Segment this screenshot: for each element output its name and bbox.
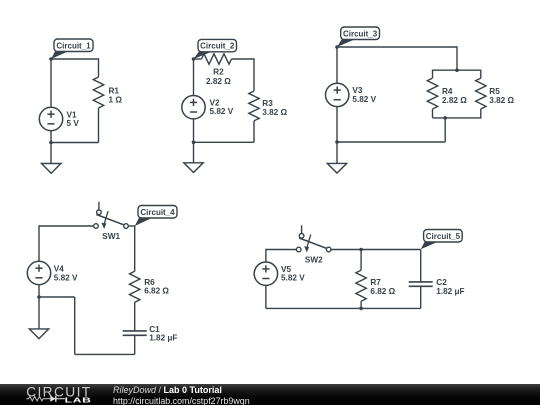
wire R6 top lead [134,226,136,271]
ground Circuit_2 [184,163,203,173]
svg-text:R4: R4 [442,87,453,96]
resistor R5 [476,78,486,109]
svg-text:6.82 Ω: 6.82 Ω [370,287,395,296]
ground Circuit_1 [42,164,61,174]
svg-text:5.82 V: 5.82 V [210,107,234,116]
wire right upper Circuit_1 [98,58,100,77]
voltage source V5 [254,262,277,285]
wire to ground Circuit_2 [193,142,195,163]
wire V5 bottom lead [265,285,267,308]
node parallel bottom junction [443,116,447,120]
node Circuit_1 bottom junction [49,141,53,145]
svg-text:R6: R6 [144,278,155,287]
svg-text:6.82 Ω: 6.82 Ω [144,287,169,296]
wire R2 left lead [194,58,202,60]
CircuitLab logo resistor squiggle and diode [26,396,65,402]
wire C1 bottom lead [134,335,136,354]
svg-text:R3: R3 [262,99,273,108]
node label Circuit_4 [135,206,177,227]
svg-text:Circuit_2: Circuit_2 [200,42,235,51]
wire bottom Circuit_4 [75,353,135,355]
capacitor C1 [123,331,147,335]
node N1 (Circuit_1 top-left) [49,57,53,61]
node Circuit_4 top-right corner [134,225,136,226]
svg-text:V3: V3 [352,86,362,95]
resistor R3 [249,91,259,121]
svg-text:C2: C2 [436,278,447,287]
wire R7 top lead [360,250,362,271]
svg-text:5.82 V: 5.82 V [352,95,376,104]
wire bottom Circuit_3 [337,141,445,143]
svg-text:R2: R2 [213,68,224,77]
wire V3 top lead [336,47,338,83]
node Circuit_4 junction [37,295,41,299]
wire C2 top lead [420,250,422,282]
label V4 value [54,265,78,283]
wire right lower Circuit_2 [253,121,255,143]
wire R2 right lead [232,58,255,60]
wire SW2 right [331,249,421,251]
capacitor C2 [409,282,433,286]
svg-text:Circuit_4: Circuit_4 [140,208,175,217]
resistor R7 [356,270,366,301]
label V2 value [210,98,234,116]
wire right upper Circuit_2 [253,58,255,91]
voltage source V1 [39,107,62,130]
wire V4 bottom lead [38,285,40,297]
svg-text:V5: V5 [281,265,291,274]
node N3 (Circuit_3 top-left) [335,45,339,49]
svg-text:5.82 V: 5.82 V [281,274,305,283]
wire R5 top lead [480,70,482,79]
node R7 top junction [359,248,363,252]
svg-text:2.82 Ω: 2.82 Ω [442,96,467,105]
wire parallel top rail [433,69,481,71]
svg-text:R7: R7 [370,278,381,287]
switch SW1 [94,202,129,229]
svg-text:Circuit_3: Circuit_3 [343,29,378,38]
resistor R6 [130,271,140,302]
CircuitLab logo wordmark CIRCUIT [26,384,91,399]
label C1 value [149,325,177,343]
svg-text:3.82 Ω: 3.82 Ω [489,96,514,105]
CircuitLab logo wordmark LAB [65,396,92,404]
svg-text:Circuit_1: Circuit_1 [56,41,91,50]
label R2 value [206,68,231,86]
node label Circuit_1 [51,39,93,59]
svg-text:V1: V1 [67,110,77,119]
wire R4 bottom lead [432,109,434,118]
wire V1 bottom lead [50,131,52,143]
wire down to parallel pair [456,46,458,70]
wire V4 top lead [38,225,40,261]
wire R7 bottom lead [360,301,362,308]
resistor R4 [427,78,437,109]
svg-text:1.82 μF: 1.82 μF [436,287,464,296]
wire R4 top lead [432,70,434,79]
svg-text:SW2: SW2 [305,256,323,265]
node R7 bottom junction [359,307,363,311]
wire V1 top lead [50,59,52,107]
wire to ground Circuit_4 [38,297,40,329]
wire bottom horizontal stub [39,296,75,298]
wire down from parallel pair [444,118,446,142]
label SW2 [305,256,323,265]
wire R5 bottom lead [480,109,482,119]
label V5 value [281,265,305,283]
wire right lower Circuit_1 [98,108,100,143]
wire bottom Circuit_1 [51,142,99,144]
wire SW1 right [128,225,134,227]
wire bottom Circuit_5 [266,307,421,309]
svg-text:R5: R5 [489,87,500,96]
wire top Circuit_1 [51,58,99,60]
wire to ground Circuit_3 [336,142,338,163]
svg-text:R1: R1 [109,87,120,96]
wire V3 bottom lead [336,107,338,142]
node Circuit_2 bottom junction [192,141,196,145]
label R4 value [442,87,467,105]
svg-text:1.82 μF: 1.82 μF [149,334,177,343]
resistor R1 [93,77,103,108]
svg-text:V2: V2 [210,98,220,107]
wire top Circuit_3 [337,46,457,48]
label C2 value [436,278,464,296]
ground Circuit_3 [327,163,346,173]
resistor R2 [202,54,232,64]
wire C2 bottom lead [420,286,422,308]
wire R6 bottom / C1 top lead [134,302,136,331]
wire V2 bottom lead [193,119,195,142]
wire SW1 left [39,225,94,227]
svg-text:1 Ω: 1 Ω [109,95,123,104]
wire V5 top lead [265,249,267,262]
svg-text:3.82 Ω: 3.82 Ω [262,108,287,117]
label R1 value [109,87,123,105]
node N2 (Circuit_2 top-left) [192,57,196,61]
node label Circuit_5 [421,230,463,250]
node parallel top junction [455,68,459,72]
label V1 value [67,110,80,128]
ground Circuit_4 [29,329,48,339]
svg-text:V4: V4 [54,265,64,274]
svg-text:2.82 Ω: 2.82 Ω [206,77,231,86]
svg-text:SW1: SW1 [102,232,120,241]
switch SW2 [296,225,331,252]
node Circuit_3 bottom junction [335,140,339,144]
node label Circuit_3 [337,27,380,47]
label R7 value [370,278,395,296]
node label Circuit_2 [194,39,237,59]
wire SW2 left [266,249,297,251]
wire bottom Circuit_2 [194,141,255,143]
label R5 value [489,87,514,105]
svg-text:5.82 V: 5.82 V [54,273,78,282]
wire bottom vertical [74,297,76,354]
voltage source V2 [182,96,205,119]
label R6 value [144,278,169,296]
label V3 value [352,86,376,104]
voltage source V3 [326,83,349,106]
voltage source V4 [27,261,50,284]
wire to ground Circuit_1 [50,143,52,164]
label R3 value [262,99,287,117]
label SW1 [102,232,120,241]
svg-text:Circuit_5: Circuit_5 [426,232,461,241]
svg-text:C1: C1 [149,325,160,334]
wire V2 top lead [193,59,195,96]
svg-text:5 V: 5 V [67,119,80,128]
wire parallel bottom rail [433,117,481,119]
svg-text:LAB: LAB [65,396,92,404]
